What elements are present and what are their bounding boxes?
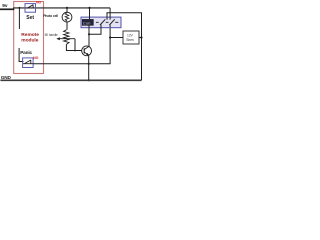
potentiometer VR1 wiper arrowhead — [56, 37, 60, 40]
switch S2 contact stub — [30, 60, 32, 64]
svg-text:Photo cell: Photo cell — [43, 14, 58, 18]
photocell LDR1 element zigzag — [65, 13, 69, 21]
switch S2 pole line — [23, 63, 33, 65]
transistor Q1 collector diagonal — [84, 46, 89, 49]
wire siren left lead — [110, 37, 123, 39]
wire panic feed from rail — [18, 8, 20, 29]
wire wiper down to base node — [74, 39, 76, 51]
switch S1 Set box — [25, 4, 36, 13]
switch S1 contact stub — [32, 5, 34, 8]
wire pot bottom to base — [66, 44, 81, 50]
svg-text:5K handle: 5K handle — [45, 33, 58, 37]
switch S1 arm — [27, 5, 33, 9]
node junction rail-coil — [88, 7, 90, 9]
node junction wiper-bottom — [74, 50, 76, 52]
wire panic feed lower segment — [19, 48, 23, 62]
switch S2 Panic box — [23, 58, 33, 68]
node junction photocell on rail — [66, 7, 68, 9]
svg-text:Set: Set — [26, 15, 34, 21]
relay linkage dashes — [96, 21, 119, 23]
svg-text:12V: 12V — [127, 34, 134, 38]
wire rail to coil top — [89, 8, 91, 19]
transistor Q1 emitter arrowhead — [86, 53, 89, 55]
relay contact 1 arm — [100, 19, 105, 25]
node junction right rail-siren — [140, 36, 142, 38]
wire second feed line — [107, 13, 142, 80]
svg-text:Coil: Coil — [83, 21, 91, 25]
node junction emitter-gnd — [88, 79, 90, 81]
node junction rail-panic — [18, 7, 20, 9]
remote module enclosure box — [14, 2, 44, 74]
wire coil bottom to node — [88, 25, 90, 34]
wire photocell to pot — [66, 22, 68, 30]
wire panic output to relay common — [33, 25, 110, 64]
node junction coil-contact-collector — [88, 33, 90, 35]
transistor Q1 circle — [82, 46, 92, 56]
potentiometer VR1 wiper line — [59, 38, 76, 40]
photocell LDR1 circle — [62, 12, 72, 22]
wire top rail thick left stub — [0, 8, 14, 10]
switch S2 arm — [25, 60, 31, 64]
svg-text:Remote: Remote — [21, 32, 39, 38]
svg-text:GND: GND — [1, 75, 12, 80]
siren box — [123, 31, 139, 44]
wire rail to photocell — [66, 8, 68, 12]
wire node to contact1 bottom — [89, 25, 101, 35]
svg-text:module: module — [21, 38, 38, 44]
node junction common-siren — [109, 36, 111, 38]
ground rail — [0, 79, 141, 81]
relay RLA1 box fill — [81, 17, 121, 28]
svg-text:Siren: Siren — [126, 38, 134, 42]
transistor Q1 emitter diagonal — [84, 52, 88, 55]
potentiometer VR1 element — [64, 30, 69, 45]
svg-text:Panic: Panic — [20, 50, 32, 55]
relay coil — [82, 19, 93, 25]
wire top rail 9v — [13, 7, 110, 9]
transistor Q1 base bar — [83, 48, 85, 53]
node junction emitter-panic wire — [88, 63, 90, 65]
wire collector up — [88, 34, 90, 46]
svg-text:NO: NO — [33, 56, 38, 60]
relay contact 2 arm — [109, 19, 114, 25]
wire rail corner into contact2 top — [109, 8, 111, 20]
svg-text:NO: NO — [36, 1, 41, 5]
relay RLA1 box — [81, 17, 121, 28]
wire emitter down to gnd — [88, 55, 90, 80]
wire siren right lead — [139, 37, 142, 39]
svg-text:9v: 9v — [2, 3, 8, 9]
